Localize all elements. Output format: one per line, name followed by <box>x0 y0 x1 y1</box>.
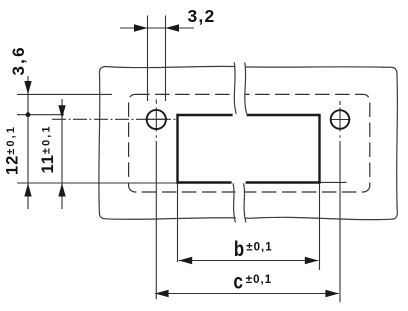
svg-text:b: b <box>234 238 244 261</box>
svg-text:3,6: 3,6 <box>9 45 28 75</box>
svg-text:±0,1: ±0,1 <box>246 242 272 254</box>
svg-text:±0,1: ±0,1 <box>246 274 272 286</box>
svg-text:3,2: 3,2 <box>188 6 216 26</box>
svg-text:c: c <box>233 270 243 294</box>
